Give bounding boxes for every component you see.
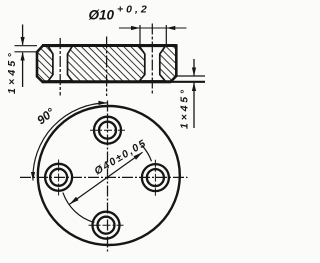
hole left <box>45 164 72 191</box>
dim line dia40 <box>70 152 143 204</box>
ext line bottom-right (bottom surface extended) <box>171 81 205 83</box>
centerline hole R section <box>151 24 153 96</box>
top surface thick line <box>42 44 177 47</box>
svg-text:+0,2: +0,2 <box>117 4 150 16</box>
centerline horizontal bottom view <box>20 176 188 178</box>
hole L hourglass <box>48 46 72 81</box>
dim 1x45 left arrow lower <box>22 53 24 87</box>
bolt circle arc top-right <box>142 145 152 161</box>
hole R hourglass <box>139 46 165 81</box>
dim 1x45 right arrow upper <box>193 59 195 75</box>
svg-text:1×45°: 1×45° <box>179 87 191 129</box>
hole bottom <box>93 212 120 239</box>
ext line right chamfer top <box>175 75 206 77</box>
svg-text:Ø10: Ø10 <box>89 8 115 23</box>
ext line left chamfer bottom <box>15 51 38 53</box>
hole top <box>94 117 121 144</box>
ext lines dia10 <box>139 25 141 45</box>
centerline hole L section <box>59 38 61 96</box>
hole right <box>142 164 169 191</box>
dim 1x45 right arrow lower <box>193 83 195 128</box>
ext line top-left (top surface extended) <box>15 45 38 47</box>
dim 1x45 left arrow upper <box>22 25 24 45</box>
section body hatched <box>37 46 176 82</box>
centerline axis section <box>106 37 108 97</box>
90 deg arc <box>33 103 107 181</box>
centerline vertical bottom view <box>107 101 109 254</box>
flange drawing <box>0 0 205 263</box>
main circle <box>38 106 180 245</box>
svg-text:1×45°: 1×45° <box>6 50 18 94</box>
dim line dia10 <box>119 27 187 29</box>
bottom surface thick line <box>42 80 171 83</box>
bolt circle arc bottom-left <box>63 193 94 223</box>
